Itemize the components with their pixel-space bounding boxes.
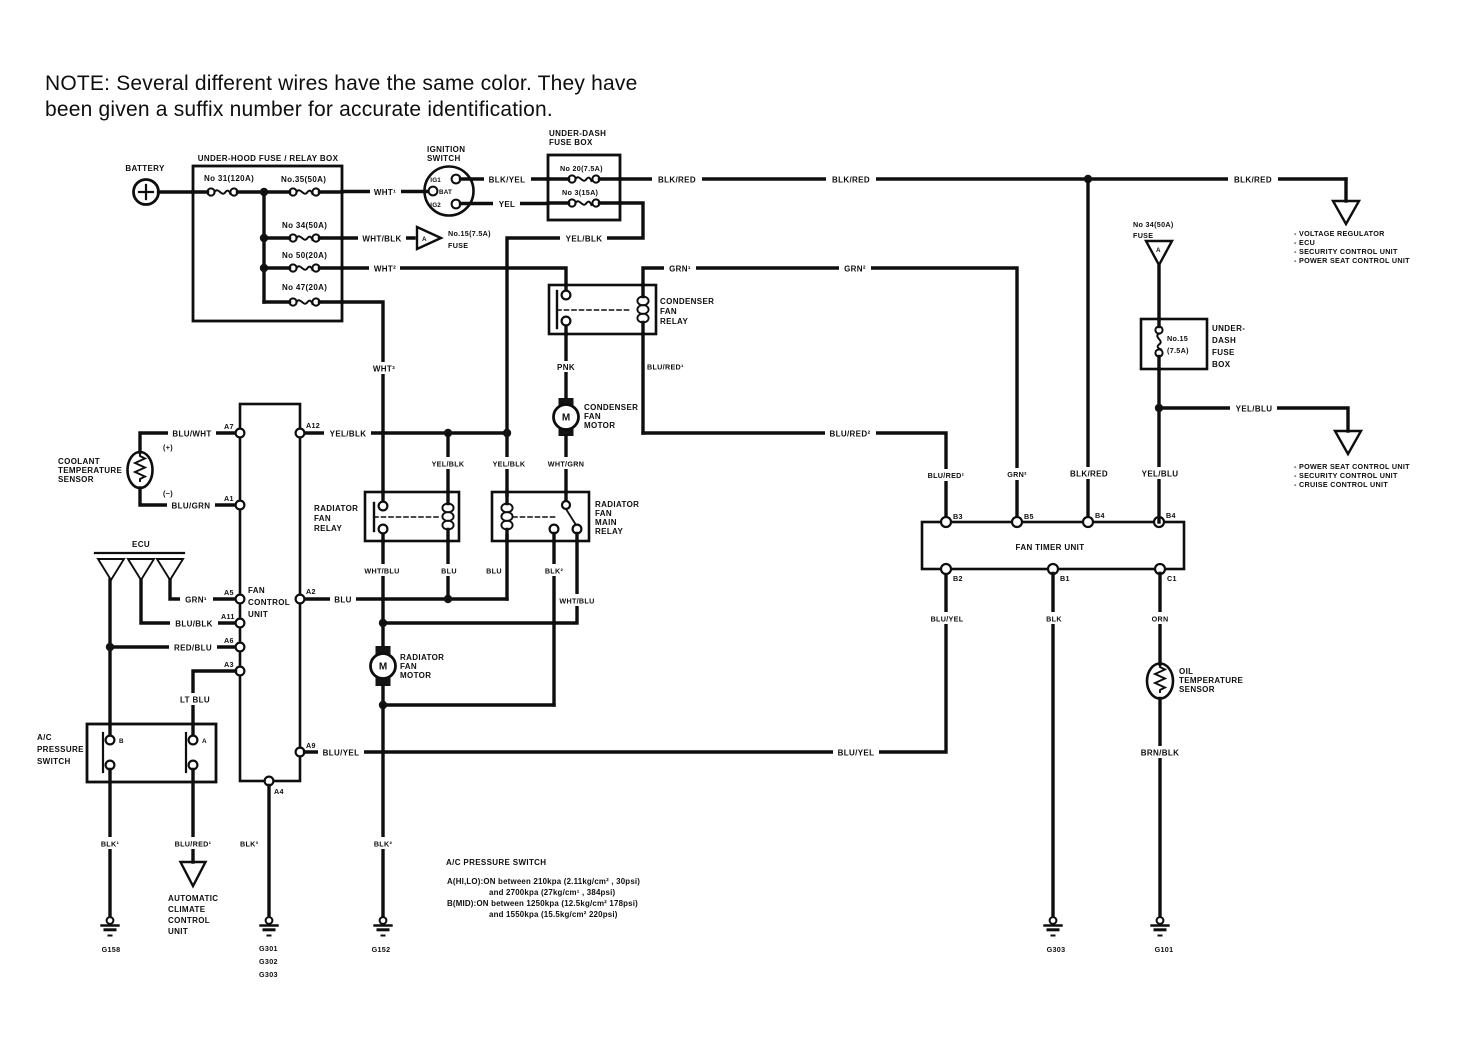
wire GRN1 ECU to A5 [170,580,236,605]
svg-text:No 34(50A): No 34(50A) [1133,220,1174,229]
node bus junction row1 [260,188,268,196]
condenser fan relay [549,285,714,334]
svg-text:BLU/RED¹: BLU/RED¹ [175,840,212,849]
svg-text:BLK¹: BLK¹ [101,840,120,849]
svg-text:A5: A5 [224,588,234,597]
svg-text:BLK/RED: BLK/RED [1234,176,1272,185]
svg-text:IG1: IG1 [430,177,441,184]
svg-text:No 31(120A): No 31(120A) [204,174,254,183]
svg-text:and 2700kpa (27kg/cm¹ , 384psi: and 2700kpa (27kg/cm¹ , 384psi) [489,888,616,897]
svg-text:RADIATOR: RADIATOR [400,653,444,662]
terminal B5 [1012,512,1034,527]
svg-text:WHT/GRN: WHT/GRN [548,460,584,469]
svg-text:UNIT: UNIT [248,610,268,619]
wire battery to fuse box [159,190,194,193]
svg-text:LT BLU: LT BLU [180,696,210,705]
ground G158 [102,917,121,954]
A/C pressure switch [37,724,216,782]
wire ORN fan timer C1 to oil temperature sensor [1147,574,1173,665]
svg-text:WHT/BLU: WHT/BLU [364,567,399,576]
wire BLU/RED1 condenser relay coil down [643,334,684,433]
svg-text:- POWER SEAT CONTROL UNIT: - POWER SEAT CONTROL UNIT [1294,462,1410,471]
svg-text:YEL/BLK: YEL/BLK [493,460,526,469]
wire BLU/RED2 to fan timer B3 [643,427,970,522]
connector arrow to power seat control unit etc [1294,431,1410,489]
radiator fan relay [314,492,459,541]
fuse No 34 (50A) [264,221,342,242]
svg-text:B(MID):ON between 1250kpa (12.: B(MID):ON between 1250kpa (12.5kg/cm² 17… [447,899,638,908]
wire WHT3 fuse 47 down to radiator fan relay [342,302,399,492]
fuse No.35 (50A) [264,175,342,196]
svg-text:TEMPERATURE: TEMPERATURE [58,466,122,475]
svg-text:UNIT: UNIT [168,927,188,936]
node motor ground junction [379,701,387,709]
terminal A6 [224,636,244,651]
svg-text:BLU/YEL: BLU/YEL [931,615,964,624]
terminal C1 [1155,564,1177,583]
wire BLU/RED1 to automatic climate control unit [170,770,217,863]
wire BLK/RED down to fan timer B4 [1064,179,1113,522]
svg-text:WHT¹: WHT¹ [374,188,396,197]
svg-text:FUSE: FUSE [1133,231,1153,240]
wire BLK2 main relay contact down [542,534,567,706]
svg-text:A: A [1156,247,1161,254]
svg-text:been given a suffix number for: been given a suffix number for accurate … [45,98,553,121]
svg-text:(7.5A): (7.5A) [1167,346,1189,355]
wire YEL/BLK drop to radiator fan relay coil [428,433,468,492]
svg-text:BLK³: BLK³ [240,840,259,849]
node YEL/BLK junction coil1 [444,429,452,437]
wire BLK/YEL ignition IG1 to under-dash fuse box [461,173,549,185]
svg-text:FUSE BOX: FUSE BOX [549,138,593,147]
wire fuse 34 to under-dash fuse box 2 [1157,265,1160,319]
svg-text:CONTROL: CONTROL [248,598,290,607]
ECU connectors [95,540,184,580]
node bus junction row3 [260,264,268,272]
svg-text:A3: A3 [224,660,234,669]
svg-text:No 3(15A): No 3(15A) [562,188,599,197]
wire BLU radiator fan relay coil down [438,541,460,599]
coolant temperature sensor [58,443,173,498]
wire BLK/RED from under-dash fuse box to right side [620,173,1346,185]
svg-text:BLK/RED: BLK/RED [1070,470,1108,479]
svg-text:BLK/RED: BLK/RED [832,176,870,185]
terminal A2 [296,587,316,603]
svg-text:BLK/YEL: BLK/YEL [489,176,526,185]
node YEL/BLK junction coil2 [503,429,511,437]
svg-text:YEL/BLK: YEL/BLK [432,460,465,469]
svg-text:A: A [422,236,427,243]
svg-text:BATTERY: BATTERY [125,164,165,173]
svg-text:UNDER-DASH: UNDER-DASH [549,129,606,138]
svg-text:TEMPERATURE: TEMPERATURE [1179,676,1243,685]
svg-text:B3: B3 [953,512,963,521]
terminal A3 [224,660,244,675]
svg-text:A: A [202,738,207,745]
terminal A1 [224,494,244,509]
svg-text:CONTROL: CONTROL [168,916,210,925]
svg-text:WHT/BLK: WHT/BLK [362,235,401,244]
svg-text:RELAY: RELAY [660,317,688,326]
svg-text:A(HI,LO):ON between 210kpa (2.: A(HI,LO):ON between 210kpa (2.11kg/cm² ,… [447,877,640,886]
svg-text:- VOLTAGE REGULATOR: - VOLTAGE REGULATOR [1294,229,1385,238]
wire bus vertical [262,192,265,302]
svg-text:BLU: BLU [334,596,352,605]
svg-text:NOTE: Several different wires: NOTE: Several different wires have the s… [45,72,638,95]
svg-text:G301: G301 [259,944,278,953]
svg-text:FAN: FAN [248,586,265,595]
wire BLK2 motor to ground G152 [369,705,397,917]
svg-text:B4: B4 [1166,511,1176,520]
svg-text:G101: G101 [1155,945,1174,954]
svg-text:WHT³: WHT³ [373,365,395,374]
fan control unit [240,404,300,781]
svg-text:OIL: OIL [1179,667,1193,676]
svg-text:A1: A1 [224,494,234,503]
wire LT BLU A3 to A/C switch A [175,671,236,736]
svg-text:AUTOMATIC: AUTOMATIC [168,894,218,903]
svg-text:(−): (−) [163,489,173,498]
svg-text:(+): (+) [163,443,173,452]
ground G101 [1152,917,1174,954]
node bus junction row2 [260,234,268,242]
svg-text:BLK²: BLK² [545,567,564,576]
svg-text:PNK: PNK [557,363,575,372]
svg-text:A4: A4 [274,787,284,796]
node BLK/RED junction [1084,175,1092,183]
terminal A7 [224,422,244,437]
svg-text:BLU/YEL: BLU/YEL [323,749,360,758]
fuse symbol No 34(50A) triangle [1133,220,1174,265]
svg-text:BLU/YEL: BLU/YEL [838,749,875,758]
terminal A4 [265,777,284,796]
terminal B1 [1048,564,1070,583]
svg-text:RELAY: RELAY [314,524,342,533]
terminal A5 [224,588,244,603]
svg-text:ORN: ORN [1152,615,1169,624]
wire BLU/GRN sensor to A1 [140,488,236,511]
ground G303 [1045,917,1066,954]
svg-text:BLU/WHT: BLU/WHT [172,430,211,439]
battery [125,164,165,205]
svg-text:FAN: FAN [660,307,677,316]
svg-text:A/C: A/C [37,733,52,742]
svg-text:and 1550kpa (15.5kg/cm² 220p: and 1550kpa (15.5kg/cm² 220psi) [489,910,618,919]
svg-text:FAN TIMER UNIT: FAN TIMER UNIT [1016,543,1085,552]
radiator fan main relay [492,492,639,541]
svg-text:A/C PRESSURE SWITCH: A/C PRESSURE SWITCH [446,858,546,867]
A/C pressure switch note [446,858,640,919]
svg-text:IG2: IG2 [430,202,441,209]
svg-text:RADIATOR: RADIATOR [595,500,639,509]
terminal A9 [296,741,316,756]
wire YEL/BLU branch to power seat control unit [1159,402,1348,431]
svg-text:IGNITION: IGNITION [427,145,465,154]
svg-text:BLU/RED¹: BLU/RED¹ [928,471,965,480]
svg-text:G152: G152 [372,945,391,954]
svg-text:BLK/RED: BLK/RED [658,176,696,185]
svg-text:- SECURITY CONTROL UNIT: - SECURITY CONTROL UNIT [1294,247,1398,256]
svg-text:YEL/BLU: YEL/BLU [1142,470,1179,479]
svg-text:FAN: FAN [314,514,331,523]
oil temperature sensor [1147,664,1243,699]
svg-text:BLU: BLU [441,567,457,576]
fuse No.15 (7.5A) vertical [1155,319,1162,369]
wire BLU/BLK ECU to A11 [141,580,236,629]
terminal B4 right [1154,511,1176,527]
svg-text:GRN²: GRN² [844,265,866,274]
svg-text:ECU: ECU [132,540,150,549]
svg-text:PRESSURE: PRESSURE [37,745,84,754]
svg-text:B4: B4 [1095,511,1105,520]
svg-text:FAN: FAN [400,662,417,671]
svg-text:FUSE: FUSE [448,241,468,250]
fan timer unit [922,522,1184,569]
terminal A12 [296,421,320,437]
wire WHT/BLK fuse 34 to No.15 fuse symbol [342,232,414,244]
under-dash fuse box [548,129,620,220]
svg-text:A7: A7 [224,422,234,431]
svg-text:M: M [562,413,570,424]
svg-text:A2: A2 [306,587,316,596]
svg-text:No 34(50A): No 34(50A) [282,221,327,230]
fuse No 47 (20A) [264,283,342,306]
svg-text:BAT: BAT [439,189,452,196]
svg-text:RADIATOR: RADIATOR [314,504,358,513]
fuse No 20 (7.5A) [548,164,620,183]
fuse No 3 (15A) [548,188,620,207]
terminal A11 [221,612,244,627]
wire YEL/BLK from under-dash fuse box (No 3) [489,203,643,495]
wire BLU/WHT sensor to A7 [140,427,236,452]
wire PNK condenser relay to condenser fan motor [551,334,581,399]
svg-text:A11: A11 [221,612,235,621]
wire GRN from condenser relay coil to fan timer B5 [643,262,1034,522]
svg-text:GRN¹: GRN¹ [185,596,207,605]
svg-text:B2: B2 [953,574,963,583]
svg-text:BLU/GRN: BLU/GRN [172,502,211,511]
svg-text:MAIN: MAIN [595,518,617,527]
wire WHT1 to ignition switch [342,185,428,197]
node RED/BLU junction [106,643,114,651]
terminal B3 [941,512,963,527]
note text [45,72,638,121]
fuse No 50 (20A) [264,251,342,272]
svg-text:- CRUISE CONTROL UNIT: - CRUISE CONTROL UNIT [1294,480,1388,489]
wire BLU/YEL A9 to fan timer B2 [305,574,969,759]
svg-text:BLU/RED²: BLU/RED² [829,430,870,439]
svg-text:B5: B5 [1024,512,1034,521]
svg-text:No.15: No.15 [1167,334,1188,343]
node WHT/BLU junction [379,619,387,627]
svg-text:SENSOR: SENSOR [58,475,94,484]
node YEL/BLU junction [1155,404,1163,412]
wire WHT/GRN condenser motor to radiator fan main relay [543,436,590,492]
svg-text:No 50(20A): No 50(20A) [282,251,327,260]
svg-text:GRN¹: GRN¹ [669,265,691,274]
wire BRN/BLK oil sensor to ground G101 [1136,699,1184,918]
svg-text:YEL/BLU: YEL/BLU [1236,405,1273,414]
svg-text:MOTOR: MOTOR [400,671,431,680]
svg-text:SENSOR: SENSOR [1179,685,1215,694]
svg-text:- POWER SEAT CONTROL UNIT: - POWER SEAT CONTROL UNIT [1294,256,1410,265]
svg-text:G302: G302 [259,957,278,966]
svg-text:BLU/BLK: BLU/BLK [175,620,213,629]
svg-text:BRN/BLK: BRN/BLK [1141,749,1179,758]
svg-text:No 20(7.5A): No 20(7.5A) [560,164,603,173]
svg-text:A12: A12 [306,421,320,430]
svg-text:A9: A9 [306,741,316,750]
wire RED/BLU ECU to A6 and A/C switch [110,580,236,736]
svg-text:C1: C1 [1167,574,1177,583]
wire BLK3 A4 to ground [240,786,269,918]
svg-text:YEL/BLK: YEL/BLK [330,430,367,439]
svg-text:A6: A6 [224,636,234,645]
wire YEL ignition IG2 to under-dash fuse box [461,197,549,209]
svg-text:- SECURITY CONTROL UNIT: - SECURITY CONTROL UNIT [1294,471,1398,480]
connector arrow to voltage regulator etc [1294,179,1410,265]
connector arrow automatic climate control unit [168,862,218,936]
svg-text:UNDER-: UNDER- [1212,324,1245,333]
svg-text:G303: G303 [259,970,278,979]
node BLU junction [444,595,452,603]
svg-text:CONDENSER: CONDENSER [660,297,714,306]
svg-text:BLK: BLK [1046,615,1062,624]
under-hood fuse/relay box [193,154,342,321]
wire BLK fan timer B1 to ground G303 [1042,574,1066,918]
wire YEL/BLK from A12 [305,427,508,439]
wire BLU from A2 to relay coils [305,593,508,605]
svg-text:No.15(7.5A): No.15(7.5A) [448,229,491,238]
svg-text:M: M [379,662,387,673]
terminal B4 [1083,511,1105,527]
svg-text:RED/BLU: RED/BLU [174,644,212,653]
ignition switch [425,145,474,216]
svg-text:B1: B1 [1060,574,1070,583]
svg-text:FAN: FAN [595,509,612,518]
wire BLK1 to ground G158 [97,770,124,918]
svg-text:BLK²: BLK² [374,840,393,849]
svg-text:BLU/RED¹: BLU/RED¹ [647,363,684,372]
terminal B2 [941,564,963,583]
svg-text:FUSE: FUSE [1212,348,1235,357]
wire WHT2 fuse 50 to condenser fan relay [342,262,566,285]
svg-text:BLU: BLU [486,567,502,576]
ground G301 G302 G303 [259,917,278,979]
svg-text:WHT²: WHT² [374,265,396,274]
svg-text:No 47(20A): No 47(20A) [282,283,327,292]
svg-text:SWITCH: SWITCH [427,154,461,163]
svg-text:YEL/BLK: YEL/BLK [566,235,603,244]
svg-text:UNDER-HOOD FUSE / RELAY BOX: UNDER-HOOD FUSE / RELAY BOX [198,154,339,163]
svg-text:G158: G158 [102,945,121,954]
svg-text:WHT/BLU: WHT/BLU [559,597,594,606]
svg-text:CLIMATE: CLIMATE [168,905,206,914]
condenser fan motor [554,398,639,436]
svg-text:CONDENSER: CONDENSER [584,403,638,412]
fuse symbol No.15 (7.5A) triangle [417,227,491,250]
svg-text:SWITCH: SWITCH [37,757,71,766]
radiator fan motor [371,646,445,686]
wire WHT/BLU main relay contact to motor feed [383,534,601,624]
svg-text:COOLANT: COOLANT [58,457,100,466]
svg-text:G303: G303 [1047,945,1066,954]
wire YEL/BLU under-dash fuse to fan timer B4 [1137,369,1182,522]
svg-text:YEL: YEL [499,200,516,209]
svg-text:RELAY: RELAY [595,527,623,536]
ground G152 [372,917,392,954]
svg-text:- ECU: - ECU [1294,238,1315,247]
svg-text:B: B [119,738,124,745]
wire WHT/BLU radiator fan relay to motor [359,541,406,647]
svg-text:GRN²: GRN² [1007,470,1027,479]
svg-text:MOTOR: MOTOR [584,421,615,430]
svg-text:BOX: BOX [1212,360,1231,369]
svg-text:FAN: FAN [584,412,601,421]
wire motor negative to main relay contact [383,686,554,705]
svg-text:DASH: DASH [1212,336,1236,345]
under-dash fuse box 2 [1141,319,1245,369]
svg-text:No.35(50A): No.35(50A) [281,175,326,184]
fuse No 31 (120A) [193,174,264,196]
wire BLU main relay coil down [483,536,507,599]
